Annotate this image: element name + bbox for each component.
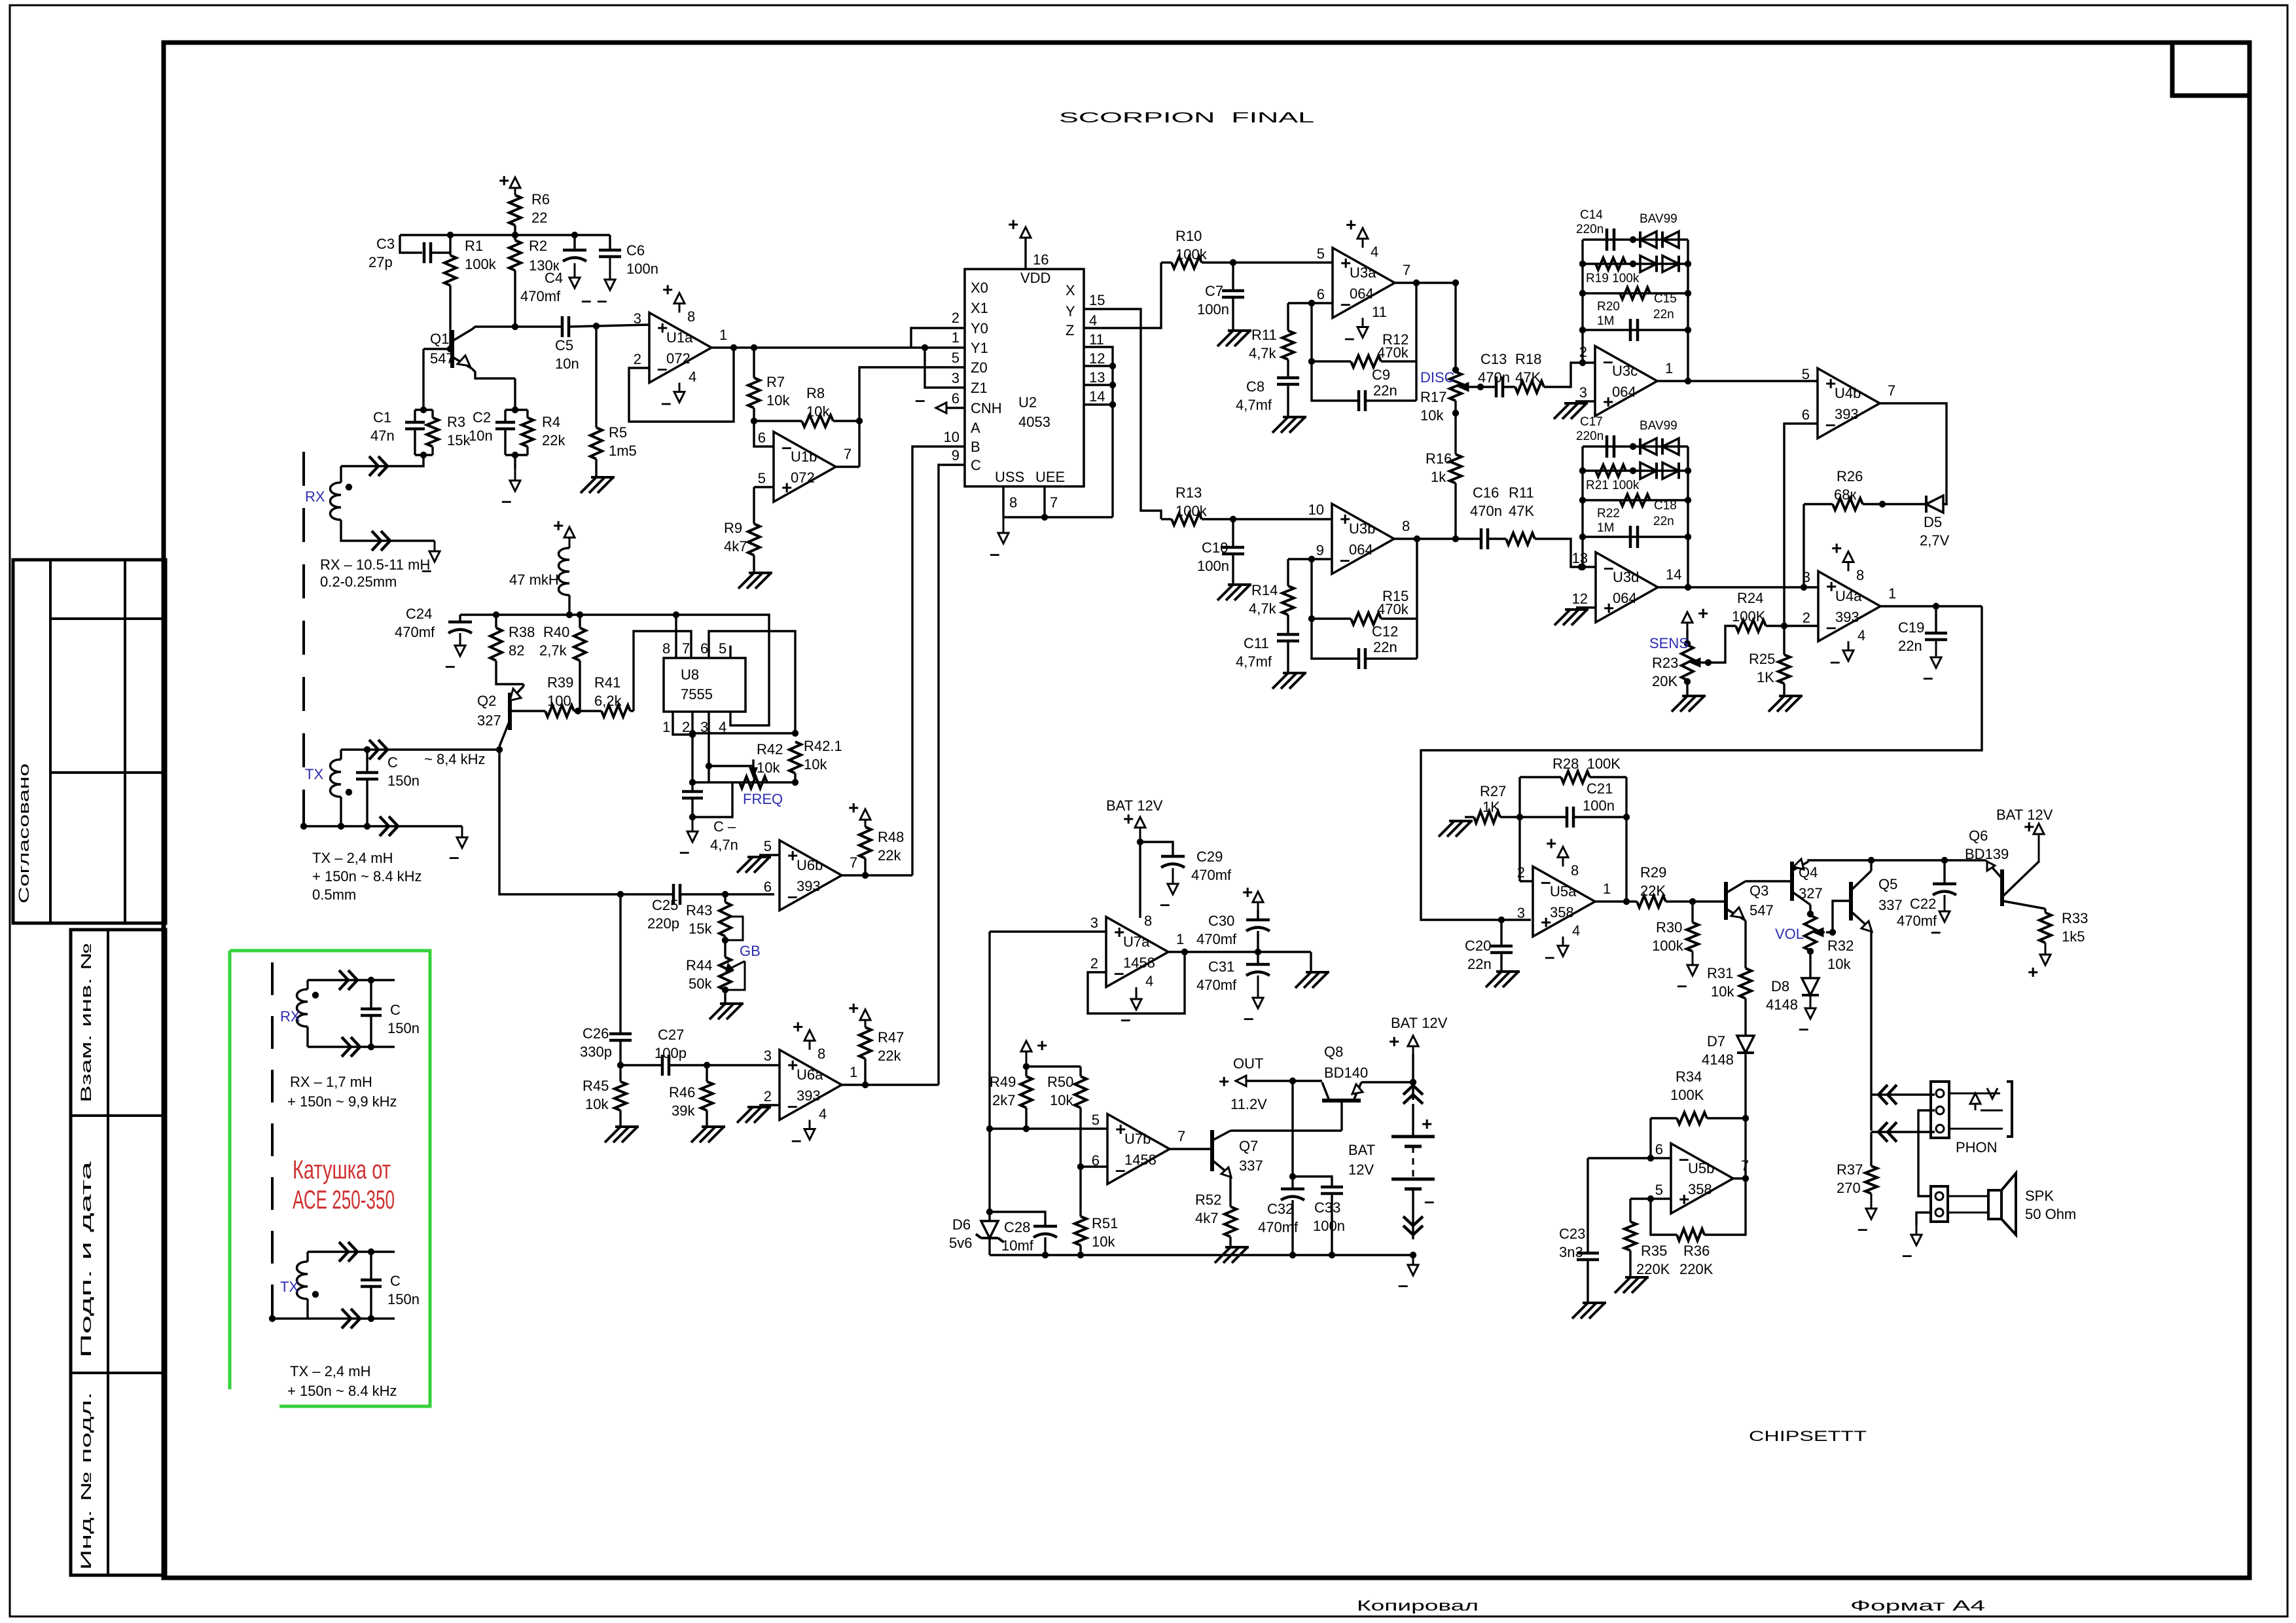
wire R34 left lead <box>1651 1117 1677 1119</box>
wire bank1 right rail <box>1687 240 1689 330</box>
junction pin9 R15 <box>1308 556 1315 562</box>
wire to C25 <box>620 893 673 895</box>
battery BAT 12V <box>1391 1137 1435 1146</box>
wire Y1 to Z1 <box>925 348 965 388</box>
resistor R10 <box>1172 257 1202 268</box>
op-amp U4b <box>1818 369 1880 439</box>
wire R34 right lead <box>1707 1117 1746 1119</box>
junction row2 left <box>689 779 696 786</box>
svg-text:X1: X1 <box>971 300 988 316</box>
junction pin6 node <box>1647 1155 1654 1161</box>
junction cap bottom <box>689 814 696 820</box>
svg-text:+: + <box>1219 1071 1229 1091</box>
svg-text:15k: 15k <box>689 921 712 937</box>
capacitor C5 <box>562 316 569 337</box>
transistor Q1 <box>450 330 454 368</box>
svg-text:2: 2 <box>764 1088 772 1104</box>
svg-text:U3a: U3a <box>1350 264 1376 281</box>
wire emitter to C2R4 <box>514 378 516 410</box>
wire Q8 emitter row <box>1361 1081 1413 1083</box>
svg-text:–: – <box>661 393 672 413</box>
wire bank1 row4 <box>1583 329 1688 331</box>
junction loop pin5 <box>986 1125 993 1132</box>
capacitor C26 <box>609 1034 632 1040</box>
svg-text:R28 100K: R28 100K <box>1552 756 1621 772</box>
svg-text:4: 4 <box>1089 312 1097 329</box>
svg-text:Y: Y <box>1066 303 1075 319</box>
svg-text:R47: R47 <box>878 1029 904 1046</box>
junction rail R51 <box>1077 1252 1084 1258</box>
wire U4b out <box>1880 403 1946 504</box>
wire D7 to R34 <box>1744 1053 1746 1118</box>
wire spk bottom <box>1916 1213 1931 1226</box>
svg-text:+: + <box>2024 816 2034 837</box>
svg-text:–: – <box>1160 894 1170 914</box>
svg-text:50k: 50k <box>689 976 712 992</box>
resistor R13 <box>1172 513 1202 525</box>
wire R34 left riser <box>1649 1118 1651 1158</box>
title block upper horizontals <box>50 619 166 773</box>
svg-text:10k: 10k <box>757 759 780 776</box>
wire pin5 row <box>990 1127 1107 1129</box>
corner box <box>2172 43 2250 96</box>
op-amp U3c <box>1595 346 1657 416</box>
junction tx2 coil dot <box>312 1291 319 1298</box>
svg-text:2: 2 <box>1579 344 1587 360</box>
wire C26 top lead <box>619 894 621 1034</box>
svg-text:C20: C20 <box>1465 938 1491 954</box>
svg-text:R33: R33 <box>2062 910 2088 926</box>
capacitor C27 <box>662 1055 669 1076</box>
junction bank1 l1 <box>1579 261 1586 267</box>
junction R32 bottom <box>1807 948 1814 955</box>
svg-text:C32: C32 <box>1267 1201 1293 1217</box>
wire U5a right rail <box>1625 777 1627 902</box>
wire R51 top lead <box>1079 1167 1081 1216</box>
svg-text:327: 327 <box>1799 885 1823 902</box>
capacitor C18 22n <box>1630 526 1638 548</box>
wire C3 right <box>431 251 450 253</box>
ground R45 <box>605 1127 639 1142</box>
svg-text:100n: 100n <box>1197 301 1229 318</box>
svg-text:5: 5 <box>719 640 726 657</box>
capacitor C31 <box>1246 963 1270 966</box>
svg-text:R36: R36 <box>1683 1243 1710 1259</box>
svg-text:Взам. инв. №: Взам. инв. № <box>78 943 94 1103</box>
svg-text:064: 064 <box>1613 590 1637 606</box>
resistor R39 <box>545 705 574 717</box>
wire R9 vertical <box>753 487 755 524</box>
capacitor C30 <box>1246 919 1270 922</box>
svg-text:22: 22 <box>531 210 547 226</box>
svg-text:100n: 100n <box>1197 558 1229 574</box>
svg-text:R9: R9 <box>724 520 742 536</box>
wire U1a feedback loop <box>629 348 734 422</box>
wire TX bottom row <box>304 825 462 827</box>
wire R43 R44 link <box>724 936 726 957</box>
svg-text:22n: 22n <box>1653 308 1674 321</box>
wire C26 bottom lead <box>619 1040 621 1065</box>
IC U8 7555 box <box>664 658 745 712</box>
svg-text:R44: R44 <box>686 957 712 974</box>
wire tx2 cap top lead <box>370 1252 372 1280</box>
svg-text:R29: R29 <box>1640 864 1666 881</box>
svg-text:GB: GB <box>740 943 761 959</box>
wire Q1 base row <box>423 348 452 350</box>
ground R9 <box>738 573 772 589</box>
wire U6b pin5 gnd <box>759 854 780 856</box>
svg-text:4: 4 <box>1145 973 1153 989</box>
wire C23 bottom lead <box>1587 1260 1588 1303</box>
svg-text:7555: 7555 <box>681 686 713 702</box>
junction bank2 r1 <box>1630 443 1636 450</box>
resistor R42.1 <box>789 742 801 773</box>
svg-text:USS: USS <box>995 469 1024 485</box>
resistor R45 <box>615 1082 626 1110</box>
resistor R35 <box>1624 1222 1636 1250</box>
svg-text:+: + <box>848 998 859 1018</box>
wire U4b pin6 <box>1784 424 1818 626</box>
wire power ground rail <box>990 1254 1413 1256</box>
wire loop to audio <box>1421 606 1982 920</box>
svg-text:R31: R31 <box>1707 965 1733 981</box>
svg-text:U2: U2 <box>1018 394 1037 410</box>
svg-text:22n: 22n <box>1898 638 1922 654</box>
wire R17 to R16 <box>1454 401 1456 454</box>
wire U2 pin16 <box>1024 237 1026 269</box>
svg-text:2: 2 <box>682 719 690 735</box>
svg-text:U3b: U3b <box>1349 520 1375 537</box>
junction BAT Q8 <box>1410 1079 1416 1085</box>
diode D5 <box>1926 496 1943 513</box>
wire C1R3 to RX <box>341 455 423 466</box>
capacitor C29 <box>1161 855 1185 858</box>
wire R26 right <box>1863 503 1926 505</box>
wire rx2 coil top lead <box>306 980 308 989</box>
svg-text:10k: 10k <box>1711 983 1734 1000</box>
svg-text:–: – <box>449 847 459 867</box>
junction bank1 l3 <box>1579 327 1586 333</box>
svg-text:470mf: 470mf <box>395 624 435 640</box>
supply - arrow D8 <box>1810 995 1812 1010</box>
svg-text:Q7: Q7 <box>1239 1138 1258 1154</box>
wire C28 bottom lead <box>1044 1237 1046 1255</box>
svg-text:C: C <box>390 1273 401 1289</box>
junction R47 bottom <box>862 1082 869 1088</box>
svg-text:2: 2 <box>1803 610 1810 626</box>
svg-text:U8: U8 <box>681 666 699 683</box>
svg-text:100K: 100K <box>1732 608 1766 625</box>
resistor R20 1M <box>1620 287 1650 299</box>
wire L1 to rail <box>568 595 570 615</box>
junction rx2 coil dot <box>312 992 319 998</box>
svg-text:8: 8 <box>1571 862 1579 879</box>
wire R49 top lead <box>1025 1067 1027 1076</box>
junction U5a out rail <box>1623 898 1630 905</box>
svg-text:R49: R49 <box>990 1074 1016 1090</box>
svg-text:072: 072 <box>791 469 815 486</box>
resistor R41 <box>601 705 630 717</box>
svg-text:14: 14 <box>1089 388 1105 405</box>
svg-text:R24: R24 <box>1737 590 1763 606</box>
wire bank2 row2 <box>1583 469 1688 471</box>
supply - arrow C22 <box>1944 895 1946 913</box>
supply + arrow BAT <box>1412 1045 1414 1054</box>
junction R49 pin5 <box>1023 1125 1030 1132</box>
junction R17 bottom <box>1452 410 1459 416</box>
wire bank1 left rail <box>1581 240 1583 330</box>
svg-text:8: 8 <box>1144 913 1152 929</box>
svg-text:47n: 47n <box>370 428 395 444</box>
supply - arrow U2 <box>1003 517 1005 534</box>
resistor R36 <box>1677 1229 1704 1241</box>
wire R23 gnd <box>1686 680 1688 696</box>
wire U2 p11 <box>1084 347 1113 517</box>
junction R7 R8 <box>751 418 757 424</box>
svg-text:22k: 22k <box>542 432 565 448</box>
wire BAT col bottom <box>1412 1189 1414 1239</box>
resistor R2 <box>509 240 521 270</box>
resistor R29 <box>1637 896 1666 907</box>
wire U4a out <box>1879 605 1982 607</box>
wire top bias rail <box>400 234 610 236</box>
svg-text:+ 150n ~ 8.4 kHz: + 150n ~ 8.4 kHz <box>287 1383 397 1399</box>
svg-text:R42.1: R42.1 <box>804 738 842 754</box>
svg-text:R39: R39 <box>547 674 573 691</box>
supply + arrow R48 <box>865 818 867 827</box>
wire U1b out to Z0 <box>859 367 965 467</box>
svg-text:11: 11 <box>1089 331 1104 348</box>
svg-text:10k: 10k <box>766 392 790 409</box>
wire R51 bottom lead <box>1079 1245 1081 1255</box>
wire U3a out col <box>1415 283 1417 401</box>
svg-text:R35: R35 <box>1641 1243 1667 1259</box>
junction R15 left <box>1308 615 1315 622</box>
transistor Q7 <box>1210 1130 1214 1171</box>
svg-text:U4a: U4a <box>1835 588 1862 604</box>
svg-text:BAT 12V: BAT 12V <box>1391 1015 1448 1031</box>
junction R43 top <box>722 891 728 898</box>
svg-text:C26: C26 <box>583 1025 609 1042</box>
svg-text:–: – <box>1677 975 1687 995</box>
chevron TX bottom <box>380 816 398 836</box>
svg-text:10: 10 <box>1308 501 1324 518</box>
svg-text:100n: 100n <box>626 261 658 277</box>
svg-text:R2: R2 <box>529 238 547 254</box>
wire U2 pinB to U6b <box>912 447 965 875</box>
op-amp U6b <box>780 841 842 911</box>
svg-text:R20: R20 <box>1597 300 1620 314</box>
wire C12 branch <box>1312 619 1359 659</box>
junction C21 right <box>1623 814 1630 820</box>
junction C29 <box>1137 839 1143 845</box>
svg-text:C30: C30 <box>1208 913 1234 929</box>
capacitor C2 <box>495 422 515 429</box>
junction wiper VOL <box>1829 929 1836 936</box>
junction p12 <box>1109 363 1116 369</box>
resistor R9 <box>748 524 760 555</box>
junction C26 bottom <box>617 1062 624 1068</box>
wire U5a pin2 row <box>1520 880 1533 882</box>
wire Q1 emitter row <box>472 369 515 378</box>
resistor R31 <box>1740 968 1751 998</box>
svg-text:100n: 100n <box>1313 1218 1345 1234</box>
wire tx2 cap bottom lead <box>370 1286 372 1319</box>
wire C4 top lead <box>573 235 575 250</box>
resistor R18 <box>1515 381 1544 393</box>
svg-text:10k: 10k <box>1050 1092 1073 1108</box>
resistor R33 <box>2039 913 2051 943</box>
chevron BAT top <box>1403 1085 1423 1104</box>
junction C10 top <box>1230 516 1236 522</box>
wire bank1 row1 <box>1583 238 1688 240</box>
wire U6b out <box>842 874 912 876</box>
svg-text:C16: C16 <box>1473 484 1499 501</box>
svg-text:7: 7 <box>1888 382 1895 399</box>
svg-text:C28: C28 <box>1004 1219 1030 1235</box>
resistor R12 <box>1351 356 1381 367</box>
junction C28 tap <box>986 1209 993 1215</box>
svg-text:39k: 39k <box>672 1103 695 1119</box>
svg-text:1: 1 <box>1603 881 1611 897</box>
svg-text:470mf: 470mf <box>520 288 561 304</box>
wire R12 right lead <box>1381 360 1416 362</box>
svg-text:Подп. и дата: Подп. и дата <box>78 1160 94 1358</box>
wire D6 col <box>988 1129 990 1221</box>
ground C7 <box>1217 331 1251 346</box>
svg-text:5: 5 <box>1092 1112 1100 1128</box>
svg-text:U1b: U1b <box>791 448 817 465</box>
svg-text:~ 8,4 kHz: ~ 8,4 kHz <box>424 751 486 767</box>
wire tx2 coil bottom lead <box>306 1299 308 1319</box>
svg-text:5: 5 <box>764 838 772 854</box>
svg-text:1: 1 <box>1888 585 1896 602</box>
inductor RX coil <box>331 483 342 520</box>
wire D5 right lead <box>1943 503 1948 505</box>
svg-text:Y1: Y1 <box>971 340 988 356</box>
svg-text:337: 337 <box>1878 897 1903 913</box>
wire C33 bottom lead <box>1331 1194 1333 1255</box>
op-amp U7b <box>1107 1114 1170 1184</box>
resistor R27 <box>1474 811 1500 823</box>
junction TX row coil <box>338 823 344 830</box>
svg-text:Копировал: Копировал <box>1357 1597 1479 1614</box>
svg-text:220p: 220p <box>647 915 679 932</box>
op-amp U3a <box>1333 248 1395 318</box>
junction rail C33 <box>1329 1252 1335 1258</box>
pot wiper VOL <box>1816 932 1825 934</box>
wire R14 top lead <box>1287 559 1289 586</box>
svg-text:150n: 150n <box>387 1020 420 1036</box>
svg-text:8: 8 <box>1009 494 1017 511</box>
svg-text:1: 1 <box>850 1064 857 1080</box>
wire R36 right lead <box>1704 1118 1746 1235</box>
svg-text:DISC: DISC <box>1420 369 1455 386</box>
junction C2R4 top <box>512 407 518 413</box>
resistor R42 pot <box>740 776 767 788</box>
svg-text:–: – <box>791 1130 802 1150</box>
svg-text:–: – <box>1398 1275 1408 1295</box>
junction p13 <box>1109 382 1116 388</box>
wire sens top <box>1686 630 1688 644</box>
svg-text:22n: 22n <box>1373 639 1397 655</box>
svg-text:4,7k: 4,7k <box>1249 600 1277 617</box>
junction C1R3 top <box>420 407 427 413</box>
wire gnd stub C30 <box>1310 952 1312 972</box>
junction U1a fb <box>730 344 737 351</box>
capacitor C7 <box>1222 291 1244 297</box>
svg-text:C31: C31 <box>1208 958 1234 975</box>
capacitor C13 <box>1496 376 1503 397</box>
wire pin3 riser <box>708 766 709 782</box>
svg-text:7: 7 <box>1050 494 1058 511</box>
wire U8 pin8 stub <box>675 615 677 658</box>
svg-text:3: 3 <box>1517 905 1525 921</box>
svg-text:4053: 4053 <box>1018 414 1050 430</box>
svg-text:A: A <box>971 420 980 436</box>
svg-text:D6: D6 <box>952 1216 971 1233</box>
wire R4 top lead <box>526 410 528 418</box>
junction C32 C33 <box>1289 1173 1296 1180</box>
junction R2 top <box>512 232 518 238</box>
resistor R16 <box>1450 454 1462 483</box>
junction bank1 r2 <box>1630 261 1636 267</box>
svg-text:C18: C18 <box>1654 499 1677 513</box>
wire R8 left lead <box>754 420 802 422</box>
wire R3 top lead <box>431 410 433 418</box>
svg-text:CNH: CNH <box>971 400 1002 416</box>
supply - arrow C29 <box>1172 868 1174 885</box>
svg-text:R52: R52 <box>1195 1192 1221 1208</box>
junction row2 right <box>792 779 798 786</box>
svg-text:2,7k: 2,7k <box>539 642 567 659</box>
wire R25 gnd lead <box>1783 684 1785 696</box>
wire rx2 cap top lead <box>370 980 372 1009</box>
svg-text:2,7V: 2,7V <box>1920 532 1950 549</box>
wire R9 bottom lead <box>753 555 755 573</box>
svg-text:Q2: Q2 <box>477 693 496 709</box>
wire R49 R50 rail <box>1026 1065 1081 1067</box>
svg-text:–: – <box>1931 921 1941 941</box>
svg-text:Q6: Q6 <box>1969 828 1988 844</box>
junction C7 top <box>1230 259 1236 266</box>
svg-text:SCORPION FINAL: SCORPION FINAL <box>1059 109 1314 126</box>
resistor R28 <box>1561 771 1590 783</box>
svg-text:4: 4 <box>1572 922 1580 939</box>
capacitor C12 <box>1359 648 1365 669</box>
transistor Q5 <box>1849 882 1853 921</box>
resistor R14 <box>1282 586 1294 615</box>
svg-text:R41: R41 <box>594 674 620 691</box>
svg-text:BAT 12V: BAT 12V <box>1106 797 1163 814</box>
wire C23 top lead <box>1587 1158 1588 1253</box>
wire C1R3 bottom rail <box>415 454 433 456</box>
svg-text:9: 9 <box>952 447 960 464</box>
resistor R11 <box>1282 331 1294 359</box>
svg-text:2: 2 <box>1517 864 1525 881</box>
capacitor C24 <box>448 621 472 624</box>
svg-text:+: + <box>1698 603 1708 623</box>
arrow CNH <box>936 403 946 413</box>
junction Q1 base <box>447 346 454 352</box>
svg-text:R21 100k: R21 100k <box>1586 479 1640 492</box>
svg-text:C21: C21 <box>1587 780 1613 797</box>
wire osc supply rail <box>460 613 676 615</box>
junction bank2 l1 <box>1579 467 1586 474</box>
wire bank1 right to out <box>1687 330 1689 381</box>
diode bank2 D2 <box>1662 439 1679 455</box>
svg-text:220K: 220K <box>1636 1261 1670 1277</box>
